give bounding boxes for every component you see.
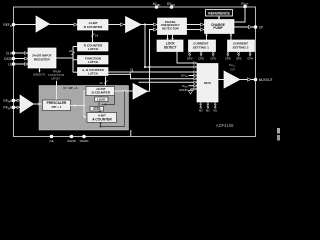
svg-text:DGND: DGND	[179, 88, 187, 92]
wire DATA	[14, 58, 29, 60]
svg-text:LATCH: LATCH	[88, 47, 99, 51]
pin REFIN	[12, 23, 16, 27]
svg-text:CP: CP	[259, 26, 263, 30]
block 6-BIT A COUNTER	[87, 113, 117, 123]
buffer A2 (R divider output)	[126, 17, 142, 33]
svg-text:RSET: RSET	[241, 2, 249, 7]
wire AB latch to MUX (19 bus, row3)	[108, 71, 197, 73]
wire lock detect to MUX	[177, 52, 197, 64]
block R COUNTER LATCH	[78, 43, 109, 52]
SDOUT arrow below register	[39, 68, 41, 72]
block PHASE FREQUENCY DETECTOR	[158, 18, 187, 35]
wire REFERENCE to charge pump	[218, 16, 220, 20]
svg-text:19: 19	[130, 67, 134, 71]
pin RSET	[243, 5, 247, 9]
block 14-BIT R COUNTER	[78, 20, 109, 31]
wire prescaler out	[70, 105, 84, 107]
svg-text:LOAD: LOAD	[93, 107, 101, 111]
node on vertical B	[148, 66, 150, 68]
svg-text:CPI3: CPI3	[187, 58, 193, 61]
svg-text:DETECTOR: DETECTOR	[162, 26, 180, 30]
wire DVDD stub to MUX (row4)	[189, 75, 198, 77]
wire charge pump to CP pin	[234, 26, 256, 28]
svg-text:FROM: FROM	[53, 70, 62, 74]
wire RFINA	[14, 99, 21, 101]
wire CS1 to charge pump	[206, 34, 208, 41]
bus register to latches	[56, 57, 73, 59]
svg-text:M1: M1	[213, 110, 217, 113]
block PRESCALER	[43, 100, 71, 111]
block MUX	[197, 64, 218, 103]
svg-text:A COUNTER: A COUNTER	[92, 117, 112, 121]
wire N divider up to PFD (vertical B)	[148, 30, 158, 92]
ground symbol	[190, 89, 192, 91]
block 24-BIT INPUT REGISTER	[28, 48, 56, 68]
svg-text:AGND: AGND	[67, 139, 77, 143]
edge artifact bottom right	[277, 128, 280, 134]
svg-text:PUMP: PUMP	[213, 26, 223, 30]
buffer A3 (RF input)	[20, 95, 34, 113]
svg-text:RFINB: RFINB	[3, 106, 12, 111]
wire RF buffer to prescaler	[34, 103, 43, 105]
svg-text:LATCH: LATCH	[88, 60, 99, 64]
svg-text:R COUNTER: R COUNTER	[84, 25, 103, 29]
wire to A counter	[84, 106, 87, 118]
bus 14 to R counter latch	[92, 30, 94, 43]
pin DGND	[82, 135, 86, 139]
block 13-BIT B COUNTER	[86, 87, 115, 96]
wire row5 to MUX	[108, 74, 197, 78]
wire RSET to charge pump	[234, 7, 245, 22]
svg-text:14: 14	[95, 34, 99, 38]
svg-text:M3: M3	[199, 110, 203, 113]
svg-text:LOAD: LOAD	[97, 98, 105, 102]
pin RFINA	[12, 99, 16, 103]
wire RFINB	[14, 106, 21, 108]
svg-text:13: 13	[100, 81, 104, 85]
pin LE	[12, 62, 16, 66]
svg-text:P/P + 1: P/P + 1	[52, 105, 62, 109]
wire R divider to PFD	[141, 24, 158, 26]
node on vertical A	[144, 66, 146, 68]
block REFERENCE (inverse)	[206, 10, 233, 17]
wire buffer to R counter	[50, 24, 78, 26]
wire R divider down (vertical A)	[144, 25, 146, 68]
chip boundary	[14, 7, 256, 137]
block A,B COUNTER LATCH	[78, 68, 109, 76]
svg-text:DVDD: DVDD	[167, 2, 175, 7]
node R	[144, 23, 146, 25]
wire PFD to lock detect (2 arrows)	[167, 35, 169, 41]
pin AGND	[70, 135, 74, 139]
wire buffer to MUXOUT pin	[240, 79, 256, 81]
buffer A1 (reference input)	[36, 16, 50, 32]
wire LE	[14, 63, 29, 65]
svg-text:CPI5: CPI5	[236, 58, 242, 61]
svg-text:MUX: MUX	[204, 81, 211, 85]
svg-text:CLK: CLK	[6, 51, 13, 55]
note FROM FUNCTION LATCH with wire to prescaler	[56, 81, 58, 101]
bus 13 latch to B counter	[105, 77, 107, 87]
svg-text:MUXOUT: MUXOUT	[259, 78, 273, 82]
buffer A5 (muxout)	[224, 71, 240, 88]
block CURRENT SETTING 2	[228, 40, 255, 52]
wire CS2 to charge pump	[230, 34, 232, 41]
pin AVDD	[155, 5, 159, 9]
pin CE	[50, 135, 54, 139]
svg-text:CPI1: CPI1	[210, 58, 216, 61]
svg-text:N = BP + A: N = BP + A	[64, 86, 78, 90]
block CHARGE PUMP	[205, 20, 235, 34]
block LOCK DETECT	[157, 40, 183, 52]
MUX control stubs M3 M2 M1	[200, 102, 202, 107]
svg-text:LE: LE	[8, 62, 12, 66]
pin CLK	[12, 51, 16, 55]
svg-text:CE: CE	[49, 139, 53, 143]
svg-text:RFINA: RFINA	[3, 99, 13, 104]
svg-text:SETTING 2: SETTING 2	[233, 46, 249, 50]
wire CLK	[14, 52, 29, 54]
wire DGND stub to MUX (row8)	[191, 88, 198, 90]
wire R DIV stub to MUX (row7)	[189, 85, 198, 87]
svg-text:CPI4: CPI4	[247, 58, 253, 61]
pin RFINB	[12, 106, 16, 110]
svg-text:(SDOUT): (SDOUT)	[33, 73, 46, 77]
svg-text:OUT: OUT	[230, 69, 236, 72]
wire R counter to buffer A2	[108, 24, 126, 26]
svg-text:DGND: DGND	[80, 139, 90, 143]
pin DATA	[12, 57, 16, 61]
N divider gray region	[39, 86, 129, 131]
svg-text:AVDD: AVDD	[153, 2, 161, 7]
wire MUX to output buffer	[218, 79, 224, 81]
load chain wires	[100, 96, 102, 97]
svg-text:M2: M2	[206, 110, 210, 113]
block LOAD 2 (overline)	[90, 107, 104, 112]
CS2 output stubs CPI6 CPI5 CPI4	[227, 52, 229, 54]
pin DVDD	[170, 5, 174, 9]
pin CP	[254, 25, 258, 29]
CS1 output stubs CPI3 CPI2 CPI1	[189, 52, 191, 54]
pin MUXOUT	[254, 78, 258, 82]
wire N divider to MUX (row2)	[145, 66, 197, 68]
svg-text:SETTING 1: SETTING 1	[193, 46, 209, 50]
wire gray box to DGND border	[130, 130, 132, 137]
wire row6 to MUX	[139, 81, 198, 83]
wire PFD to charge pump (up)	[187, 24, 205, 26]
svg-text:DATA: DATA	[4, 57, 13, 61]
wire to B counter	[84, 91, 86, 106]
svg-text:REFERENCE: REFERENCE	[208, 12, 230, 16]
svg-text:LATCH: LATCH	[88, 71, 98, 75]
svg-text:B COUNTER: B COUNTER	[92, 91, 111, 95]
svg-text:24: 24	[69, 49, 73, 53]
svg-text:LATCH: LATCH	[51, 76, 60, 80]
wire B counter output to N buffer	[114, 90, 133, 92]
reload loop wire	[101, 91, 125, 127]
svg-text:REFIN: REFIN	[3, 23, 12, 28]
svg-text:CPI6: CPI6	[225, 58, 231, 61]
bus tick 24	[71, 52, 74, 55]
block CURRENT SETTING 1	[189, 40, 216, 52]
buffer A4 (N divider output)	[133, 84, 148, 100]
svg-text:CPI2: CPI2	[198, 58, 204, 61]
wire PFD to charge pump (down)	[187, 29, 205, 31]
block FUNCTION LATCH	[78, 56, 109, 65]
svg-text:ADF4106: ADF4106	[216, 123, 234, 128]
svg-text:REGISTER: REGISTER	[34, 57, 51, 61]
wire REFIN to buffer	[14, 24, 37, 26]
svg-text:DETECT: DETECT	[164, 46, 177, 50]
block LOAD 1	[95, 97, 109, 102]
